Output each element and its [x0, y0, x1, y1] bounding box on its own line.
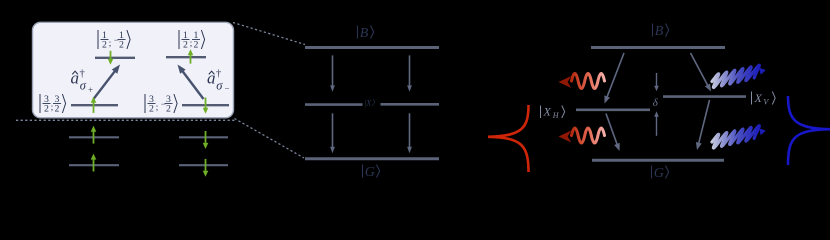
green arrow up row2 left — [93, 131, 95, 144]
svg-text:2: 2 — [194, 40, 199, 51]
ladder level line row3 right — [179, 164, 228, 166]
label |G> (right) — [651, 166, 653, 179]
svg-text:X: X — [754, 91, 763, 105]
label |G> (middle) — [362, 165, 364, 178]
blue spectral lineshape — [788, 96, 830, 165]
arrow XH->G — [606, 114, 617, 146]
blue photon squiggle top — [712, 65, 759, 87]
ket |3/2,3/2> — [39, 94, 41, 113]
green spin arrow down (upper-left) — [110, 51, 112, 60]
sigma+ transition arrow — [94, 71, 116, 99]
level |G> right — [592, 159, 724, 162]
delta splitting indicator — [656, 73, 658, 87]
level line upper-right (inset) — [166, 56, 206, 58]
dashed baseline — [16, 119, 236, 121]
red photon squiggle top — [559, 74, 605, 89]
ket |1/2,1/2> — [178, 30, 180, 49]
arrow B->XV — [691, 53, 709, 86]
blue photon squiggle bottom — [712, 126, 759, 148]
green spin arrow up (lower-left inset) — [93, 102, 95, 113]
decay arrow X->G right — [409, 113, 411, 147]
svg-text:2: 2 — [102, 40, 107, 51]
dashed connector bottom — [235, 119, 305, 159]
level |XH> — [576, 109, 650, 112]
svg-text:σ: σ — [80, 79, 87, 93]
level |G> middle — [305, 157, 439, 160]
svg-text:δ: δ — [653, 97, 659, 109]
green spin arrow down (lower-right inset) — [205, 98, 207, 109]
svg-text:−: − — [225, 84, 230, 94]
svg-text:;: ; — [156, 102, 159, 112]
level |B> right — [591, 46, 725, 49]
label |B> (middle) — [357, 26, 359, 39]
ladder level line row3 left — [69, 164, 119, 166]
svg-text:G: G — [654, 166, 664, 181]
green spin arrow up (upper-right) — [190, 54, 192, 63]
arrow B->XH — [607, 53, 624, 98]
svg-text:G: G — [365, 165, 375, 180]
decay arrow B->X right — [409, 55, 411, 86]
svg-text:H: H — [552, 111, 560, 120]
svg-text:B: B — [360, 26, 369, 41]
level |XV> — [663, 95, 746, 98]
ket |1/2,-1/2> — [97, 30, 99, 49]
red photon squiggle bottom — [559, 128, 605, 143]
svg-text:σ: σ — [216, 79, 223, 93]
svg-text:B: B — [655, 24, 664, 39]
level line lower-left (inset) — [71, 104, 118, 106]
svg-text:;: ; — [51, 102, 54, 112]
svg-text:2: 2 — [166, 104, 171, 115]
ket |3/2,-3/2> — [144, 94, 146, 113]
red spectral lineshape — [488, 105, 529, 172]
svg-text:2: 2 — [149, 104, 154, 115]
svg-text:|X〉: |X〉 — [364, 99, 379, 108]
svg-text:X: X — [543, 105, 552, 119]
svg-text:;: ; — [190, 38, 193, 48]
ladder level line row2 left — [69, 136, 119, 138]
label |B> (right) — [652, 24, 654, 37]
green arrow down row3 right — [205, 159, 207, 172]
svg-text:2: 2 — [55, 104, 60, 115]
label |XH> — [540, 106, 542, 119]
ladder level line row2 right — [179, 136, 228, 138]
decay arrow X->G left — [332, 113, 334, 147]
green arrow up row3 left — [93, 159, 95, 172]
svg-text:2: 2 — [183, 40, 188, 51]
sigma- transition arrow — [182, 71, 203, 99]
svg-text:V: V — [763, 97, 769, 106]
level line lower-right (inset) — [182, 104, 229, 106]
level |B> middle — [305, 46, 439, 49]
dashed connector top — [233, 23, 305, 45]
arrow XV->G — [699, 100, 710, 144]
level |X> middle (with small label) — [305, 103, 363, 106]
svg-text:+: + — [88, 85, 93, 95]
decay arrow B->X left — [332, 55, 334, 86]
inset box — [33, 22, 234, 118]
svg-text:2: 2 — [44, 104, 49, 115]
label |XV> — [751, 92, 753, 105]
svg-text:2: 2 — [119, 40, 124, 51]
level line upper-left (inset) — [95, 57, 135, 59]
green arrow down row2 right — [205, 131, 207, 144]
svg-text:;: ; — [109, 38, 112, 48]
